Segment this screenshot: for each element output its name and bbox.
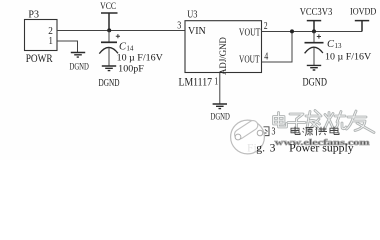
svg-text:U3: U3	[187, 9, 198, 20]
svg-text:IOVDD: IOVDD	[350, 6, 377, 17]
svg-text:LM1117: LM1117	[179, 76, 213, 89]
power symbol VCC	[101, 13, 118, 31]
svg-text:DGND: DGND	[303, 76, 327, 88]
svg-text:POWR: POWR	[26, 53, 54, 65]
svg-text:VCC3V3: VCC3V3	[300, 6, 333, 18]
svg-text:VIN: VIN	[188, 26, 206, 37]
wire P3 pin1 to ground	[57, 41, 78, 52]
watermark logo: small circle right	[257, 130, 263, 136]
svg-text:3: 3	[272, 125, 276, 136]
svg-text:VOUT: VOUT	[239, 54, 260, 65]
hanzi yuan	[303, 128, 314, 136]
svg-text:10 µ F/16V: 10 µ F/16V	[325, 53, 371, 63]
capacitor C14	[108, 31, 110, 43]
connector P3	[25, 20, 58, 51]
power symbol VCC3V3	[307, 21, 321, 32]
svg-text:DGND: DGND	[99, 77, 120, 88]
svg-text:ADJ/GND: ADJ/GND	[218, 37, 228, 75]
svg-text:DGND: DGND	[211, 112, 231, 122]
junction dot pin4 riser	[290, 29, 294, 33]
wire U3 pin1 to ground	[219, 73, 221, 105]
svg-text:DGND: DGND	[70, 62, 90, 72]
capacitor C13	[313, 32, 315, 43]
hanzi dian	[330, 127, 339, 135]
svg-text:Power supply: Power supply	[289, 142, 354, 155]
watermark text dianzifashaoyou	[274, 111, 375, 133]
hanzi tu (partially hidden)	[263, 127, 269, 136]
ground DGND at U3 pin1	[213, 104, 227, 109]
watermark logo: capsule	[233, 119, 260, 141]
svg-text:2: 2	[264, 20, 268, 31]
watermark logo: small circle left	[235, 134, 241, 140]
ground DGND at C13	[307, 65, 321, 70]
svg-text:14: 14	[126, 44, 133, 52]
watermark logo: big circle	[231, 120, 265, 154]
svg-text:1: 1	[214, 75, 218, 88]
junction dot at VCC / C14	[107, 28, 111, 32]
svg-text:g.: g.	[256, 142, 265, 155]
power symbol IOVDD	[355, 21, 369, 32]
svg-text:P3: P3	[28, 10, 39, 21]
ground DGND at C14	[102, 66, 116, 71]
C13 plus sign	[317, 34, 321, 38]
svg-text:13: 13	[335, 42, 343, 50]
hanzi dian	[291, 127, 300, 135]
ground DGND at P3 pin1	[71, 53, 85, 58]
hanzi gong	[316, 127, 327, 136]
svg-text:4: 4	[264, 51, 268, 62]
svg-text:100pF: 100pF	[118, 63, 144, 74]
wire P3 pin2 to U3 VIN (net VCC)	[57, 30, 185, 32]
svg-text:10 µ F/16V: 10 µ F/16V	[117, 53, 163, 63]
svg-text:VCC: VCC	[100, 0, 116, 11]
wire U3 pin2 VOUT to VCC3V3/IOVDD	[262, 31, 363, 33]
watermark text white core overlay	[274, 111, 375, 133]
caption line 1: fig3 Chinese	[263, 125, 339, 136]
junction dot at VCC3V3 / C13	[312, 29, 316, 33]
svg-text:VOUT: VOUT	[239, 26, 261, 37]
C14 plus sign	[116, 34, 120, 38]
svg-text:1: 1	[49, 35, 53, 47]
voltage regulator U3 box	[185, 21, 262, 73]
svg-text:3: 3	[177, 19, 181, 30]
wire U3 pin4 VOUT riser	[262, 32, 293, 63]
svg-text:3: 3	[270, 142, 276, 155]
